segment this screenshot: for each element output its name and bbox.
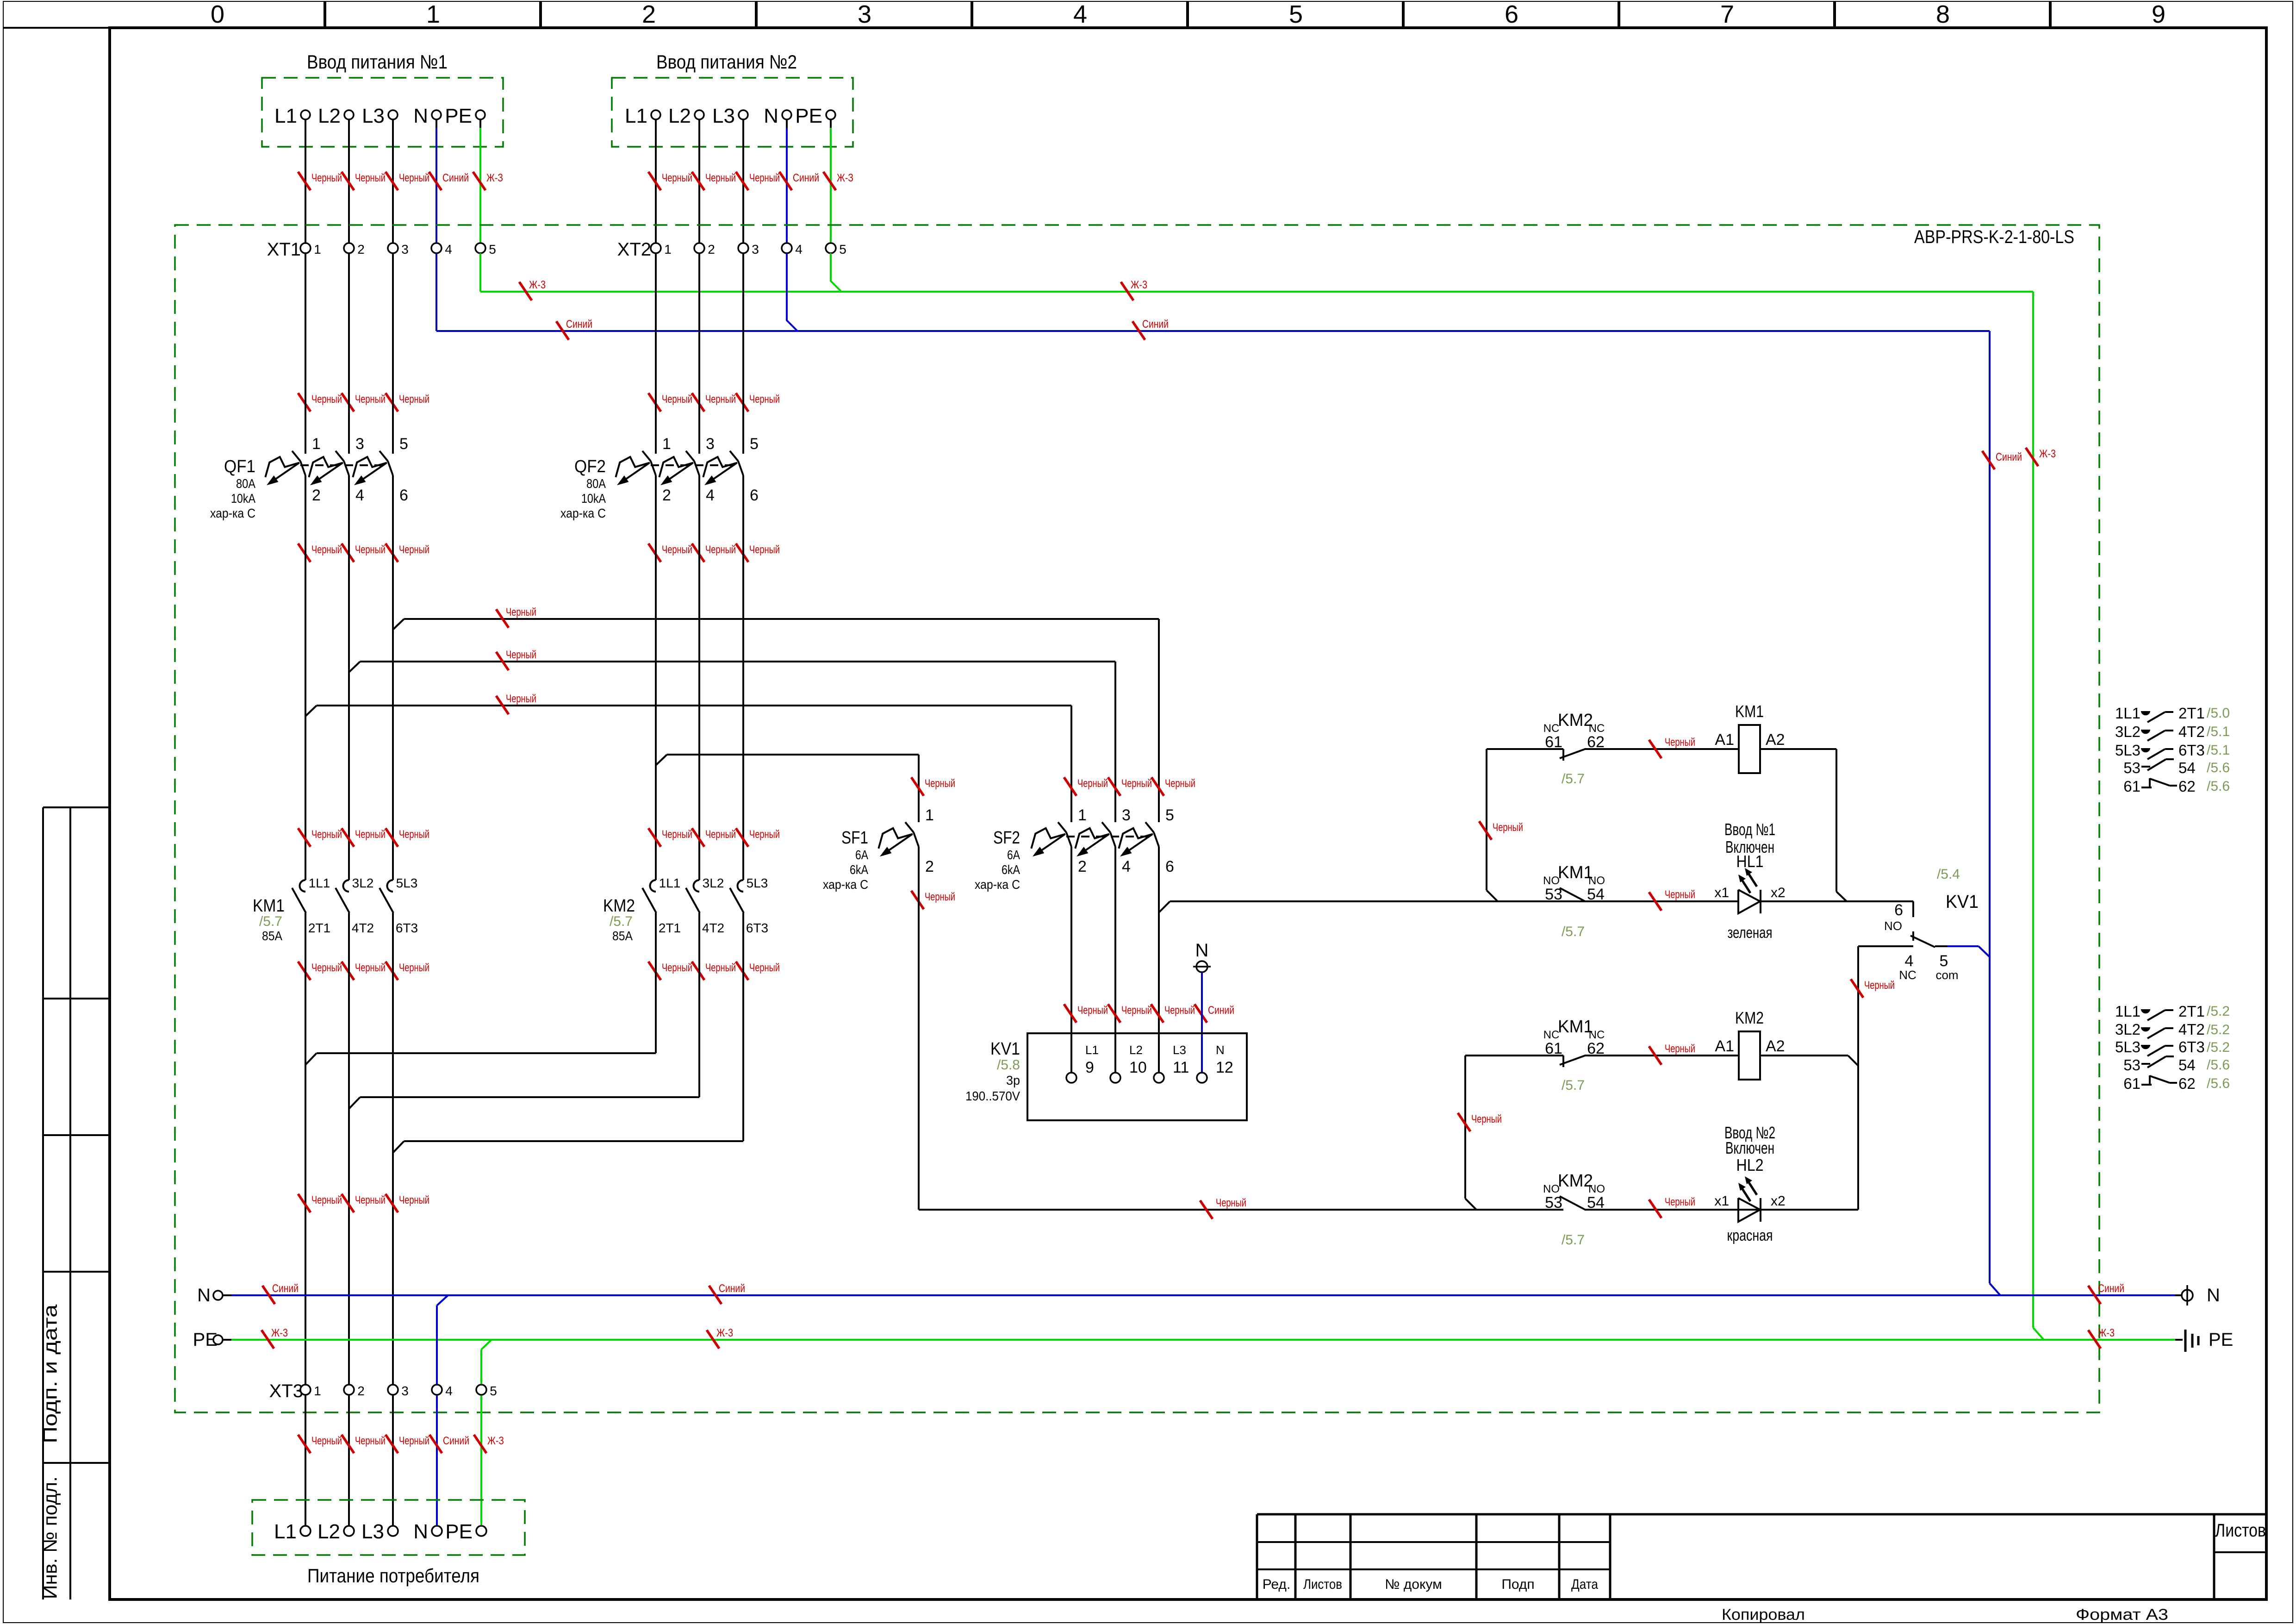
wire KV1 NC to KM2 coil rung bbox=[1848, 946, 1858, 1066]
wire input2 L1 to XT2 bbox=[655, 119, 657, 243]
svg-text:54: 54 bbox=[1587, 1194, 1605, 1212]
svg-text:NC: NC bbox=[1543, 722, 1560, 735]
svg-text:6kA: 6kA bbox=[850, 862, 868, 877]
svg-text:4: 4 bbox=[355, 487, 364, 504]
labels Ж-3 on PE bus bottom bbox=[261, 1327, 2115, 1349]
svg-text:/5.8: /5.8 bbox=[997, 1057, 1020, 1073]
svg-text:6T3: 6T3 bbox=[746, 921, 768, 935]
svg-text:Питание потребителя: Питание потребителя bbox=[307, 1565, 479, 1587]
svg-text:Черный: Черный bbox=[1665, 888, 1695, 901]
svg-text:4: 4 bbox=[1122, 858, 1131, 875]
svg-text:1: 1 bbox=[426, 0, 440, 28]
svg-text:5: 5 bbox=[750, 435, 759, 453]
svg-text:Черный: Черный bbox=[355, 1435, 386, 1447]
svg-text:Черный: Черный bbox=[355, 393, 386, 406]
svg-text:Ред.: Ред. bbox=[1263, 1577, 1291, 1592]
svg-text:Черный: Черный bbox=[749, 172, 780, 184]
svg-text:Черный: Черный bbox=[311, 543, 342, 556]
node PE bus bottom bbox=[193, 1330, 2183, 1350]
input block Ввод питания №2 bbox=[612, 51, 853, 147]
svg-text:Черный: Черный bbox=[355, 172, 386, 184]
terminal L1 input2 bbox=[625, 105, 660, 127]
svg-text:2: 2 bbox=[925, 858, 934, 875]
svg-text:L2: L2 bbox=[1129, 1043, 1143, 1057]
svg-text:54: 54 bbox=[2178, 1056, 2196, 1074]
svg-text:Копировал: Копировал bbox=[1722, 1606, 1805, 1624]
svg-text:5L3: 5L3 bbox=[747, 876, 768, 890]
svg-text:Ввод питания №2: Ввод питания №2 bbox=[656, 51, 797, 73]
wire HL2 rung from SF1 bbox=[919, 1066, 1858, 1210]
svg-text:6: 6 bbox=[750, 487, 759, 504]
label Черный on HL2 rung bbox=[1200, 1197, 1246, 1219]
svg-text:Синий: Синий bbox=[793, 172, 819, 184]
wire N drop to consumer bbox=[437, 1295, 448, 1526]
svg-text:Черный: Черный bbox=[506, 693, 536, 705]
label Черный above SF1 bbox=[911, 777, 955, 796]
svg-text:Черный: Черный bbox=[662, 393, 692, 406]
svg-text:Синий: Синий bbox=[272, 1282, 299, 1295]
circuit breaker QF2 bbox=[560, 435, 759, 520]
svg-text:Подп. и дата: Подп. и дата bbox=[39, 1304, 61, 1443]
svg-text:61: 61 bbox=[2123, 1075, 2140, 1092]
svg-text:Черный: Черный bbox=[311, 962, 342, 974]
wire input2 L3 to XT2 bbox=[742, 119, 744, 243]
svg-text:Черный: Черный bbox=[749, 828, 780, 841]
wire color labels below QF1 bbox=[298, 543, 429, 562]
terminal N input1 bbox=[413, 105, 441, 127]
svg-text:№ докум: № докум bbox=[1385, 1577, 1442, 1592]
wire SF2 outputs to KV1 bbox=[1071, 847, 1170, 1073]
label Черный on KM2 coil loop bbox=[1458, 1113, 1502, 1131]
svg-text:1: 1 bbox=[664, 242, 672, 256]
wire KM2 coil rung bbox=[1465, 1056, 1848, 1210]
svg-text:80A: 80A bbox=[236, 476, 255, 491]
terminal N right bbox=[2182, 1285, 2220, 1305]
cross-reference table KM1 contacts bbox=[2115, 705, 2230, 795]
svg-text:L1: L1 bbox=[274, 1520, 297, 1543]
svg-text:190..570V: 190..570V bbox=[965, 1089, 1020, 1103]
svg-text:1L1: 1L1 bbox=[659, 876, 681, 890]
svg-text:3L2: 3L2 bbox=[2115, 723, 2140, 740]
svg-text:/5.2: /5.2 bbox=[2207, 1040, 2230, 1055]
coil KM1 bbox=[1715, 702, 1785, 773]
svg-text:5L3: 5L3 bbox=[2115, 1038, 2140, 1056]
svg-text:/5.4: /5.4 bbox=[1937, 867, 1960, 882]
svg-text:NC: NC bbox=[1589, 722, 1605, 735]
svg-text:54: 54 bbox=[2178, 759, 2196, 776]
svg-text:Черный: Черный bbox=[1077, 1004, 1108, 1017]
svg-text:Черный: Черный bbox=[1165, 777, 1195, 790]
terminal strip XT3 bbox=[269, 1381, 497, 1401]
svg-text:Черный: Черный bbox=[705, 543, 736, 556]
contactor KM1 main contacts bbox=[253, 876, 418, 943]
svg-text:2: 2 bbox=[642, 0, 656, 28]
svg-text:3p: 3p bbox=[1006, 1073, 1020, 1087]
svg-text:/5.7: /5.7 bbox=[1562, 771, 1585, 787]
svg-text:NC: NC bbox=[1899, 968, 1916, 982]
svg-text:L2: L2 bbox=[317, 1520, 340, 1543]
svg-text:6T3: 6T3 bbox=[2178, 742, 2205, 759]
svg-text:Синий: Синий bbox=[566, 318, 592, 331]
svg-text:/5.6: /5.6 bbox=[2207, 1076, 2230, 1091]
svg-text:Черный: Черный bbox=[1665, 1043, 1695, 1055]
svg-text:10: 10 bbox=[1129, 1059, 1147, 1076]
svg-text:2: 2 bbox=[1078, 858, 1087, 875]
svg-text:L1: L1 bbox=[1085, 1043, 1099, 1057]
svg-text:85A: 85A bbox=[612, 929, 633, 943]
svg-text:5: 5 bbox=[1165, 806, 1174, 824]
svg-text:Синий: Синий bbox=[442, 172, 469, 184]
svg-text:KM2: KM2 bbox=[1735, 1008, 1764, 1027]
input block Ввод питания №1 bbox=[262, 51, 503, 147]
svg-text:/5.7: /5.7 bbox=[259, 914, 282, 929]
svg-text:61: 61 bbox=[2123, 778, 2140, 795]
svg-text:Черный: Черный bbox=[925, 777, 955, 790]
wire phases XT3 to consumer bbox=[305, 1395, 393, 1526]
wire input1 L3 to XT1 bbox=[392, 119, 394, 243]
svg-text:Ж-3: Ж-3 bbox=[271, 1327, 288, 1339]
svg-text:61: 61 bbox=[1545, 1040, 1562, 1057]
svg-text:/5.7: /5.7 bbox=[1562, 924, 1585, 939]
label Черный before HL2 bbox=[1649, 1196, 1695, 1218]
wire color labels below KM1 bbox=[298, 962, 429, 980]
svg-text:2: 2 bbox=[357, 242, 365, 256]
svg-text:KM2: KM2 bbox=[1558, 1171, 1593, 1191]
svg-text:2: 2 bbox=[357, 1384, 365, 1398]
svg-text:4: 4 bbox=[1905, 952, 1914, 970]
svg-text:Черный: Черный bbox=[399, 393, 429, 406]
terminal L2 input1 bbox=[318, 105, 354, 127]
svg-text:Черный: Черный bbox=[705, 393, 736, 406]
svg-text:Черный: Черный bbox=[399, 543, 429, 556]
svg-text:Черный: Черный bbox=[311, 393, 342, 406]
svg-text:1L1: 1L1 bbox=[2115, 1003, 2140, 1020]
svg-text:3: 3 bbox=[858, 0, 871, 28]
svg-text:L1: L1 bbox=[625, 105, 647, 127]
wire color labels input2 row bbox=[648, 172, 853, 190]
svg-text:Черный: Черный bbox=[506, 649, 536, 661]
svg-text:4: 4 bbox=[795, 242, 803, 256]
svg-text:4T2: 4T2 bbox=[352, 921, 374, 935]
svg-text:хар-ка C: хар-ка C bbox=[210, 506, 255, 520]
svg-text:N: N bbox=[413, 1520, 428, 1543]
svg-text:2: 2 bbox=[312, 487, 321, 504]
svg-text:Ввод питания №1: Ввод питания №1 bbox=[307, 51, 448, 73]
svg-text:Черный: Черный bbox=[399, 828, 429, 841]
svg-text:Черный: Черный bbox=[1216, 1197, 1246, 1209]
svg-text:1: 1 bbox=[314, 242, 321, 256]
svg-text:Черный: Черный bbox=[1665, 1196, 1695, 1208]
svg-text:A1: A1 bbox=[1715, 1037, 1734, 1055]
svg-text:Черный: Черный bbox=[662, 543, 692, 556]
svg-text:5L3: 5L3 bbox=[396, 876, 418, 890]
wire color labels below QF2 bbox=[648, 543, 780, 562]
contact KM2 NC 61-62 bbox=[1543, 711, 1605, 787]
svg-text:Ж-3: Ж-3 bbox=[716, 1327, 733, 1339]
wire color labels below XT3 bbox=[298, 1435, 504, 1453]
svg-text:Черный: Черный bbox=[311, 828, 342, 841]
svg-text:1L1: 1L1 bbox=[2115, 705, 2140, 722]
svg-text:/5.6: /5.6 bbox=[2207, 760, 2230, 775]
svg-text:2: 2 bbox=[708, 242, 715, 256]
svg-text:Черный: Черный bbox=[1077, 777, 1108, 790]
svg-text:5: 5 bbox=[490, 1384, 497, 1398]
cross-reference table KM2 contacts bbox=[2115, 1003, 2230, 1092]
svg-text:KM1: KM1 bbox=[1558, 863, 1593, 882]
svg-text:6T3: 6T3 bbox=[396, 921, 418, 935]
svg-text:/5.1: /5.1 bbox=[2207, 743, 2230, 758]
circuit breaker QF1 bbox=[210, 435, 408, 520]
svg-text:Ж-3: Ж-3 bbox=[2039, 448, 2056, 460]
svg-text:XT3: XT3 bbox=[269, 1381, 303, 1401]
svg-text:/5.7: /5.7 bbox=[610, 914, 633, 929]
svg-text:L3: L3 bbox=[1173, 1043, 1186, 1057]
svg-text:NO: NO bbox=[1543, 1183, 1560, 1195]
svg-text:4T2: 4T2 bbox=[2178, 723, 2205, 740]
svg-text:3: 3 bbox=[401, 1384, 409, 1398]
label Синий on N bus bbox=[556, 318, 2022, 469]
svg-text:/5.7: /5.7 bbox=[1562, 1232, 1585, 1248]
svg-text:6: 6 bbox=[1894, 901, 1903, 919]
svg-text:зеленая: зеленая bbox=[1728, 924, 1773, 942]
svg-text:QF2: QF2 bbox=[574, 457, 606, 476]
svg-text:HL1: HL1 bbox=[1736, 852, 1764, 871]
svg-text:53: 53 bbox=[1545, 1194, 1562, 1212]
svg-text:11: 11 bbox=[1173, 1059, 1189, 1076]
svg-text:5: 5 bbox=[399, 435, 408, 453]
svg-text:6A: 6A bbox=[855, 848, 868, 862]
coil KM2 bbox=[1715, 1008, 1785, 1080]
svg-text:Ж-З: Ж-З bbox=[486, 172, 503, 184]
svg-text:АВР-PRS-K-2-1-80-LS: АВР-PRS-K-2-1-80-LS bbox=[1914, 227, 2074, 247]
svg-text:Формат А3: Формат А3 bbox=[2076, 1606, 2168, 1624]
svg-text:Черный: Черный bbox=[1493, 821, 1523, 834]
contactor KM2 main contacts bbox=[603, 876, 768, 943]
svg-text:Черный: Черный bbox=[662, 962, 692, 974]
wire SF1 output down to HL2 rung bbox=[918, 847, 920, 1210]
svg-text:10kA: 10kA bbox=[231, 491, 255, 506]
svg-text:Синий: Синий bbox=[443, 1435, 469, 1447]
svg-text:/5.0: /5.0 bbox=[2207, 706, 2230, 721]
relay contact KV1 changeover bbox=[1858, 867, 1979, 982]
svg-text:хар-ка C: хар-ка C bbox=[975, 877, 1020, 892]
wire N terminal to KV1-12 bbox=[1201, 972, 1203, 1073]
svg-text:3L2: 3L2 bbox=[352, 876, 374, 890]
wire PE drop to consumer bbox=[481, 1340, 492, 1526]
wire input1 L2 to XT1 bbox=[348, 119, 350, 243]
svg-text:/5.6: /5.6 bbox=[2207, 779, 2230, 794]
wire color labels below KM2 bbox=[648, 962, 780, 980]
svg-text:4: 4 bbox=[1073, 0, 1087, 28]
svg-text:9: 9 bbox=[1085, 1059, 1094, 1076]
svg-text:Ж-З: Ж-З bbox=[487, 1435, 504, 1447]
svg-text:KM2: KM2 bbox=[1558, 711, 1593, 730]
svg-text:Подп: Подп bbox=[1501, 1577, 1534, 1592]
svg-text:5: 5 bbox=[839, 242, 846, 256]
svg-text:2: 2 bbox=[662, 487, 671, 504]
terminal N above KV1 bbox=[1193, 940, 1211, 972]
svg-text:85A: 85A bbox=[262, 929, 282, 943]
svg-text:3L2: 3L2 bbox=[2115, 1021, 2140, 1038]
svg-text:хар-ка C: хар-ка C bbox=[823, 877, 868, 892]
svg-text:PE: PE bbox=[2209, 1330, 2233, 1350]
wire input2 N to XT2 bbox=[786, 119, 788, 243]
svg-text:N: N bbox=[1195, 940, 1209, 961]
wire PE bus Ж-З from XT1-5 to right side bbox=[480, 253, 2044, 1340]
svg-text:3: 3 bbox=[706, 435, 715, 453]
svg-text:L3: L3 bbox=[712, 105, 735, 127]
svg-text:Черный: Черный bbox=[749, 962, 780, 974]
svg-text:Ж-3: Ж-3 bbox=[1131, 279, 1147, 291]
label Черный on KM1 coil loop bbox=[1479, 821, 1523, 840]
wire color labels above KM2 bbox=[648, 828, 780, 847]
svg-text:L2: L2 bbox=[318, 105, 341, 127]
label Черный below SF1 bbox=[911, 891, 955, 909]
svg-text:KV1: KV1 bbox=[1946, 892, 1979, 912]
terminal strip XT2 bbox=[617, 239, 846, 260]
svg-text:Черный: Черный bbox=[705, 962, 736, 974]
svg-text:62: 62 bbox=[1587, 733, 1605, 751]
svg-text:PE: PE bbox=[795, 105, 822, 127]
svg-text:L3: L3 bbox=[362, 105, 385, 127]
svg-text:4: 4 bbox=[445, 1384, 453, 1398]
contact KM1 NO 53-54 bbox=[1543, 863, 1605, 939]
svg-text:хар-ка C: хар-ка C bbox=[560, 506, 606, 520]
svg-text:Черный: Черный bbox=[399, 1194, 429, 1206]
terminal L2 input2 bbox=[668, 105, 704, 127]
svg-text:SF1: SF1 bbox=[841, 828, 868, 848]
svg-text:/5.7: /5.7 bbox=[1562, 1078, 1585, 1093]
consumer block Питание потребителя bbox=[252, 1500, 525, 1587]
terminal PE right (earth bars) bbox=[2185, 1330, 2233, 1352]
svg-text:10kA: 10kA bbox=[581, 491, 606, 506]
svg-text:NC: NC bbox=[1543, 1029, 1560, 1041]
svg-text:Ввод №1: Ввод №1 bbox=[1724, 820, 1775, 839]
svg-text:Черный: Черный bbox=[1121, 1004, 1152, 1017]
terminal N input2 bbox=[764, 105, 791, 127]
svg-text:x1: x1 bbox=[1714, 885, 1729, 900]
wire XT2 phases to QF2 bbox=[656, 253, 743, 454]
voltage relay KV1 bbox=[965, 1033, 1247, 1120]
svg-text:NO: NO bbox=[1884, 919, 1902, 933]
svg-text:KV1: KV1 bbox=[990, 1039, 1020, 1059]
label Черный before KM2 coil bbox=[1649, 1043, 1695, 1065]
svg-text:12: 12 bbox=[1216, 1059, 1233, 1076]
svg-text:Инв. № подл.: Инв. № подл. bbox=[39, 1476, 61, 1599]
svg-text:3: 3 bbox=[752, 242, 759, 256]
svg-text:com: com bbox=[1935, 968, 1958, 982]
wire color labels input1 row bbox=[298, 172, 503, 190]
svg-text:/5.6: /5.6 bbox=[2207, 1057, 2230, 1073]
svg-text:1: 1 bbox=[314, 1384, 321, 1398]
svg-text:Ж-3: Ж-3 bbox=[2098, 1327, 2115, 1339]
svg-text:N: N bbox=[764, 105, 778, 127]
svg-text:красная: красная bbox=[1727, 1227, 1773, 1244]
svg-text:/5.2: /5.2 bbox=[2207, 1004, 2230, 1019]
wire XT1 phases to QF1 bbox=[305, 253, 393, 454]
svg-text:KM1: KM1 bbox=[1735, 702, 1764, 721]
svg-text:Листов: Листов bbox=[2215, 1520, 2266, 1541]
svg-text:8: 8 bbox=[1936, 0, 1950, 28]
label Ж-3 on PE bus bbox=[519, 279, 2056, 466]
wire N bus Синий from XT1-4 to right side bbox=[436, 253, 2000, 1295]
svg-text:Синий: Синий bbox=[1996, 451, 2022, 463]
svg-text:62: 62 bbox=[1587, 1040, 1605, 1057]
svg-text:N: N bbox=[197, 1285, 211, 1305]
wire input2 PE to XT2 bbox=[830, 119, 832, 243]
node N bus bottom bbox=[197, 1285, 2182, 1305]
contact KM1 NC 61-62 lower bbox=[1543, 1017, 1605, 1093]
svg-text:6kA: 6kA bbox=[1002, 862, 1020, 877]
svg-text:x2: x2 bbox=[1771, 885, 1786, 900]
svg-text:L2: L2 bbox=[668, 105, 691, 127]
label Черный before KM1 coil bbox=[1649, 736, 1695, 758]
svg-text:Черный: Черный bbox=[355, 1194, 386, 1206]
svg-text:Синий: Синий bbox=[1142, 318, 1169, 331]
svg-text:L1: L1 bbox=[274, 105, 297, 127]
svg-text:NC: NC bbox=[1589, 1029, 1605, 1041]
svg-text:5: 5 bbox=[489, 242, 496, 256]
terminal PE input1 bbox=[445, 105, 485, 127]
svg-text:Черный: Черный bbox=[749, 543, 780, 556]
svg-text:5: 5 bbox=[1940, 952, 1948, 970]
svg-text:5: 5 bbox=[1289, 0, 1303, 28]
svg-text:Черный: Черный bbox=[355, 962, 386, 974]
svg-text:0: 0 bbox=[211, 0, 224, 28]
svg-text:Черный: Черный bbox=[311, 172, 342, 184]
terminal L3 input1 bbox=[362, 105, 398, 127]
wire color labels above KV1 bbox=[1064, 1004, 1234, 1023]
svg-text:6: 6 bbox=[1505, 0, 1518, 28]
lamp HL1 green bbox=[1714, 820, 1785, 942]
svg-text:Ж-3: Ж-3 bbox=[529, 279, 546, 291]
svg-text:62: 62 bbox=[2178, 778, 2196, 795]
svg-text:KM1: KM1 bbox=[253, 896, 285, 916]
terminal PE input2 bbox=[795, 105, 835, 127]
label Черный on KV1 NC wire bbox=[1851, 979, 1895, 998]
svg-text:Черный: Черный bbox=[1864, 979, 1895, 992]
svg-text:N: N bbox=[413, 105, 428, 127]
svg-text:PE: PE bbox=[445, 1520, 473, 1543]
svg-text:1: 1 bbox=[312, 435, 321, 453]
wire KV1 com to N bus bbox=[1947, 946, 1990, 957]
svg-text:53: 53 bbox=[2123, 759, 2140, 776]
wire input2 L2 to XT2 bbox=[698, 119, 700, 243]
wire KM1 coil rung bbox=[1487, 749, 1836, 892]
svg-text:Черный: Черный bbox=[925, 891, 955, 903]
terminal L1 input1 bbox=[274, 105, 310, 127]
svg-text:Черный: Черный bbox=[506, 606, 536, 618]
svg-text:HL2: HL2 bbox=[1736, 1156, 1764, 1174]
wire HL1 rung from SF2 to KV1 contact bbox=[1170, 890, 1913, 901]
svg-text:80A: 80A bbox=[586, 476, 606, 491]
lamp HL2 red bbox=[1714, 1123, 1785, 1244]
svg-text:3: 3 bbox=[401, 242, 409, 256]
svg-text:1L1: 1L1 bbox=[309, 876, 330, 890]
svg-text:2T1: 2T1 bbox=[2178, 705, 2205, 722]
svg-text:Черный: Черный bbox=[1121, 777, 1152, 790]
svg-text:Черный: Черный bbox=[311, 1435, 342, 1447]
svg-text:PE: PE bbox=[445, 105, 472, 127]
svg-text:QF1: QF1 bbox=[224, 457, 255, 476]
svg-text:Ж-З: Ж-З bbox=[837, 172, 853, 184]
svg-text:Черный: Черный bbox=[399, 1435, 429, 1447]
svg-text:Синий: Синий bbox=[719, 1282, 745, 1295]
terminal strip XT1 bbox=[267, 239, 496, 260]
svg-text:53: 53 bbox=[1545, 886, 1562, 903]
svg-text:3: 3 bbox=[1122, 806, 1131, 824]
wire color labels above QF1 bbox=[298, 393, 429, 412]
